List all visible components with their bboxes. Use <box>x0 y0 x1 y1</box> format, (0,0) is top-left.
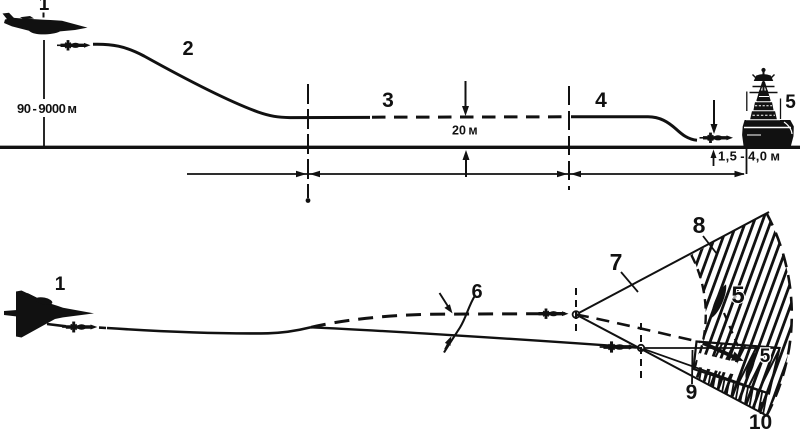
dashed attack trajectory from node 1 <box>576 315 700 343</box>
white detail lines <box>744 127 791 129</box>
short dash after missile <box>99 326 106 329</box>
trajectory 3 (dashed cruise) <box>372 115 567 118</box>
svg-text:9: 9 <box>686 381 698 404</box>
lock-on cone line B <box>644 349 769 393</box>
sea line <box>0 146 800 149</box>
missile M4 on dashed branch <box>535 309 569 319</box>
lower tick arrow at solid line <box>445 336 451 349</box>
svg-text:2: 2 <box>182 38 193 60</box>
pointer curve 6 <box>444 296 475 353</box>
missile M2 near ship <box>700 133 734 143</box>
solid branch to lower node <box>311 327 637 347</box>
trajectory 4 (final approach) <box>571 117 697 140</box>
inner dashed arc <box>691 255 705 374</box>
svg-text:5: 5 <box>785 92 796 113</box>
trajectory 2 (descent curve) <box>93 44 370 117</box>
svg-text:7: 7 <box>610 249 623 275</box>
20m down arrow <box>462 81 469 116</box>
upper tick arrow at dashed line <box>440 293 453 313</box>
arrowheads at x=569 <box>557 171 568 177</box>
svg-text:5: 5 <box>731 282 744 309</box>
label 10 with pointer <box>761 402 762 414</box>
ship course dashed line <box>724 313 740 351</box>
missile M3 (plan launch) <box>62 322 97 333</box>
svg-text:10: 10 <box>749 411 772 433</box>
svg-text:8: 8 <box>693 212 706 238</box>
lower node N2 <box>638 345 644 351</box>
mast pole <box>763 70 765 101</box>
aircraft A1 side view <box>3 13 88 35</box>
svg-text:90 - 9000 м: 90 - 9000 м <box>17 101 77 116</box>
thick arrow to lower ship <box>703 343 744 361</box>
sector lower edge <box>579 316 767 415</box>
outer dashed arc <box>766 213 791 416</box>
upper ship blob (5) <box>708 283 729 319</box>
dashed branch to upper node <box>311 314 565 328</box>
svg-text:1,5 - 4,0 м: 1,5 - 4,0 м <box>718 149 780 164</box>
upper node vertical dashed <box>575 288 577 334</box>
extra hatch inside rectangle <box>694 336 798 400</box>
svg-text:3: 3 <box>382 89 394 112</box>
lock-on cone line A (horizontal) <box>644 347 779 349</box>
sector upper edge <box>579 212 769 313</box>
common trajectory (solid, dips) <box>107 327 311 333</box>
upper node N1 <box>573 311 580 318</box>
dash segment after aircraft <box>47 324 66 326</box>
svg-text:1: 1 <box>55 274 66 295</box>
vertical guide line right (x=569) <box>568 86 570 190</box>
superstructure block <box>751 111 777 120</box>
ship (profile view) <box>743 68 794 145</box>
final altitude down arrow <box>711 100 718 134</box>
lower node vertical dashed <box>640 323 642 380</box>
label 1 (launch aircraft) <box>39 0 50 18</box>
radar antenna <box>755 75 773 81</box>
label 9 with pointer <box>691 350 694 384</box>
dot at bottom of guide <box>306 198 311 203</box>
tower <box>758 91 770 101</box>
missile M5 on solid branch <box>600 341 636 352</box>
20m up arrow <box>463 150 470 177</box>
white band inside rectangle <box>697 353 738 375</box>
hatched sector fill <box>618 203 800 433</box>
extra dense hatch in bottom strip <box>692 360 773 420</box>
dimension line under sea <box>187 171 745 177</box>
bridge block <box>754 102 773 110</box>
up arrow below sea (1.5-4m) <box>711 150 717 167</box>
arrowheads at x=308 <box>296 171 307 177</box>
aircraft A2 plan view <box>4 291 94 338</box>
vertical tick between texts <box>746 146 748 174</box>
vertical guide line left (x=308) <box>307 84 309 198</box>
hull <box>743 121 794 146</box>
yard arms <box>753 86 775 88</box>
arrowhead at x=744 <box>735 171 746 177</box>
lattice legs <box>757 82 763 101</box>
radar dot <box>762 68 765 71</box>
svg-text:20 м: 20 м <box>452 124 478 138</box>
svg-text:5: 5 <box>760 346 771 367</box>
lower ship blob (5) <box>743 352 758 380</box>
svg-text:4: 4 <box>595 89 607 112</box>
resolution rectangle <box>694 342 780 394</box>
missile M1 at launch <box>57 40 91 50</box>
altitude line at x=44 <box>43 40 45 146</box>
halyard left <box>746 92 748 112</box>
